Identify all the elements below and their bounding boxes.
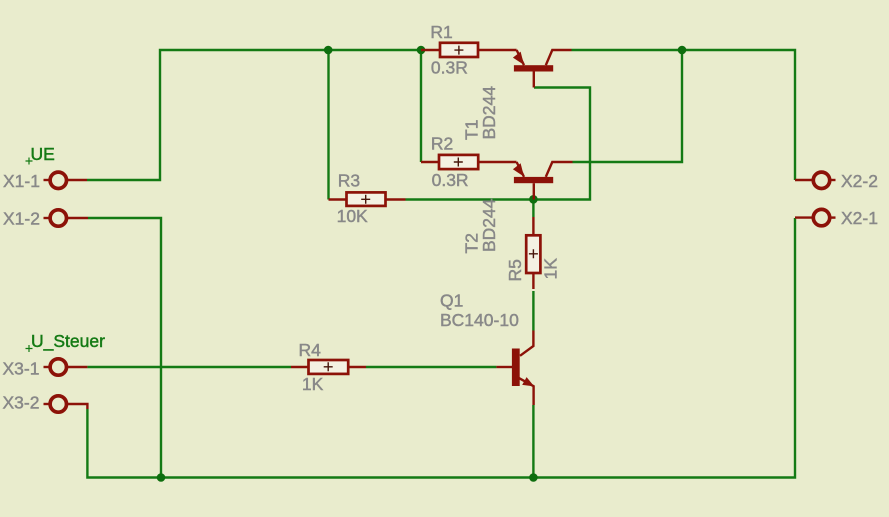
svg-text:R3: R3 bbox=[338, 171, 360, 191]
svg-text:UE: UE bbox=[31, 144, 55, 164]
svg-text:10K: 10K bbox=[337, 206, 368, 226]
svg-text:X3-1: X3-1 bbox=[3, 358, 40, 378]
svg-text:1K: 1K bbox=[541, 258, 561, 280]
svg-text:0.3R: 0.3R bbox=[431, 58, 468, 78]
svg-text:1K: 1K bbox=[302, 374, 324, 394]
svg-text:0.3R: 0.3R bbox=[432, 170, 469, 190]
svg-text:BD244: BD244 bbox=[479, 198, 499, 252]
svg-text:R2: R2 bbox=[431, 134, 453, 154]
svg-text:U_Steuer: U_Steuer bbox=[31, 331, 105, 352]
svg-text:X2-2: X2-2 bbox=[841, 171, 878, 191]
svg-text:BD244: BD244 bbox=[479, 86, 499, 140]
svg-text:R1: R1 bbox=[430, 22, 452, 42]
svg-text:Q1: Q1 bbox=[440, 291, 463, 311]
svg-text:R5: R5 bbox=[505, 259, 525, 281]
svg-text:X1-1: X1-1 bbox=[3, 171, 40, 191]
svg-text:R4: R4 bbox=[299, 340, 322, 360]
svg-text:X3-2: X3-2 bbox=[3, 393, 40, 413]
svg-text:BC140-10: BC140-10 bbox=[440, 310, 519, 330]
svg-text:X1-2: X1-2 bbox=[3, 209, 40, 229]
svg-text:X2-1: X2-1 bbox=[841, 208, 878, 228]
